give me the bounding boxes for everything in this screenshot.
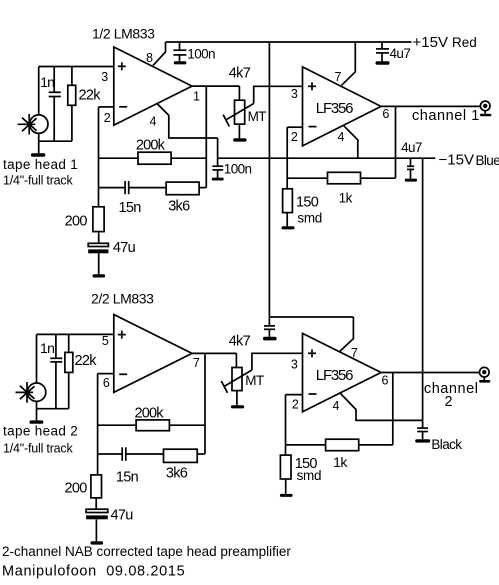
op-amp U2 LF356 (ch1) [303,67,382,146]
svg-text:−15V: −15V [439,152,474,169]
capacitor 1n (ch2) [50,334,62,408]
svg-text:4u7: 4u7 [390,46,411,61]
wire stage2 supply horizontal [269,316,353,318]
svg-text:3: 3 [101,70,108,84]
pin 7 lead to +15V [339,317,353,352]
trimmer 4k7 MT (ch1) [223,86,254,138]
svg-text:tape head 1: tape head 1 [3,157,78,172]
svg-text:2: 2 [444,394,452,410]
svg-text:1/4"-full track: 1/4"-full track [3,174,73,188]
pin 4 lead to -15V [158,104,218,138]
op-amp U1a LM833 [114,47,192,125]
ground (47u ch1) [93,274,106,277]
op-amp U3 LF356 (ch2) [303,333,382,411]
resistor 200k (ch1) [99,152,207,164]
wire tape head 1 bottom [38,133,40,153]
capacitor 47u (ch2, electrolytic) [86,509,108,541]
trimmer 4k7 MT (ch2) [221,353,252,405]
svg-text:6: 6 [382,373,389,387]
capacitor 15n (ch2) [98,447,164,461]
resistor 200 (ch2) [91,475,102,509]
svg-text:4: 4 [150,114,157,128]
svg-text:1k: 1k [339,190,353,205]
pin 4 lead to -15V [340,393,423,420]
svg-text:47u: 47u [111,508,134,524]
svg-text:7: 7 [351,346,358,360]
capacitor decoupling (mid, unlabeled) [264,317,275,337]
wire input vertical [36,334,38,383]
capacitor 1n (ch1) [49,67,61,142]
resistor 200k (ch2) [98,420,205,431]
svg-text:15n: 15n [119,200,142,216]
svg-text:200k: 200k [136,138,166,154]
svg-text:2/2 LM833: 2/2 LM833 [91,291,154,307]
resistor 3k6 (ch1) [166,182,206,195]
op-amp U1b LM833 [114,315,192,393]
resistor 22k (ch1) [68,67,76,142]
svg-text:MT: MT [248,109,267,124]
ground (Black) [415,439,430,442]
svg-text:200: 200 [65,214,88,230]
resistor 1k (ch1) [287,172,395,184]
wire supply vertical to stage 2 [268,42,270,317]
svg-text:1/4"-full track: 1/4"-full track [3,441,73,455]
wire black net vertical [422,158,424,428]
ground (4u7 -15V) [405,179,417,182]
svg-text:1: 1 [193,90,200,104]
svg-text:200: 200 [65,481,88,497]
svg-text:1n: 1n [40,74,54,90]
resistor 150 smd (ch2) [280,455,291,494]
svg-text:smd: smd [297,211,322,226]
svg-text:tape head 2: tape head 2 [3,424,78,439]
wire -15V rail [218,157,436,159]
svg-text:LF356: LF356 [316,367,353,384]
svg-text:channel 1: channel 1 [412,108,480,124]
ground (100n -15V) [212,178,224,181]
wire pin 6 notch [98,373,114,375]
svg-text:15n: 15n [116,470,139,486]
wire tape head 2 bottom [36,401,38,420]
tape head 1 symbol [18,114,48,135]
wire pin 2 vertical [285,395,287,456]
svg-text:100n: 100n [187,46,215,61]
svg-text:7: 7 [335,70,342,84]
svg-text:5: 5 [102,334,109,348]
svg-text:2: 2 [104,111,111,125]
wire wiper to pin 3 [254,86,303,103]
wire pin 6 feedback vertical [392,373,394,445]
connector channel 1 [480,101,491,116]
svg-text:LF356: LF356 [316,100,353,117]
svg-text:4k7: 4k7 [229,66,251,82]
svg-text:4k7: 4k7 [229,333,251,349]
svg-text:Black: Black [431,437,462,452]
ground (100n top) [174,61,187,64]
wire pin 7 output [192,352,236,354]
capacitor 47u (ch1, electrolytic) [88,243,108,274]
svg-text:4u7: 4u7 [401,140,422,155]
svg-text:Manipulofoon 09.08.2015: Manipulofoon 09.08.2015 [2,564,185,580]
ground (150 ch2) [280,494,293,497]
svg-text:6: 6 [103,376,110,390]
wire pin 6 vertical (feedback node A2) [97,374,99,475]
pin 7 lead to +15V [342,42,356,85]
wire pin 6 output channel 1 [381,105,481,107]
wire pin 2 vertical (feedback node A1) [98,107,100,207]
svg-text:22k: 22k [79,87,102,103]
svg-text:3: 3 [291,358,298,372]
svg-text:4: 4 [333,399,340,413]
resistor 150 smd (ch1) [283,189,293,227]
wire pin 2 notch [99,106,114,108]
wire input bottom rail [39,140,72,142]
wire pin 2 notch (LF356-2) [286,394,303,396]
svg-text:Red: Red [452,35,477,50]
svg-text:1k: 1k [333,454,348,470]
ground (trimmer ch2) [231,405,244,408]
ground (tape head 1) [31,153,45,156]
svg-text:3k6: 3k6 [168,199,190,215]
wire pin 2 notch (LF356-1) [287,126,302,128]
capacitor 4u7 (on -15V rail) [407,158,414,178]
pin 4 lead to -15V [344,126,358,159]
ground (4u7 +15V) [376,61,390,64]
capacitor 100n (on +15V rail) [173,42,186,61]
svg-text:8: 8 [146,51,153,65]
svg-text:2: 2 [292,397,299,411]
svg-text:1n: 1n [40,340,54,356]
svg-text:3k6: 3k6 [166,466,188,482]
wire pin 2 vertical [286,127,288,189]
svg-text:2-channel NAB corrected tape h: 2-channel NAB corrected tape head preamp… [2,544,291,559]
svg-text:150: 150 [296,194,319,210]
pin 8 lead [153,42,166,65]
wire wiper to pin 3 [252,353,303,370]
svg-text:1/2 LM833: 1/2 LM833 [92,26,155,42]
capacitor 100n (on -15V rail) [212,166,223,177]
capacitor Black (output) [417,428,428,439]
svg-text:47u: 47u [113,240,136,256]
svg-text:7: 7 [193,356,200,370]
svg-text:200k: 200k [135,406,165,422]
svg-text:22k: 22k [75,353,98,369]
ground (trimmer ch1) [233,138,246,141]
svg-text:+15V: +15V [413,34,448,51]
svg-text:6: 6 [382,107,389,121]
svg-text:4: 4 [338,130,345,144]
wire pin4 junction vertical [217,138,219,166]
svg-text:Blue: Blue [476,153,499,168]
wire pin 6 output channel 2 [381,372,480,374]
tape head 2 symbol [16,382,46,403]
ground (47u ch2) [91,541,104,544]
wire pin 1 feedback vertical [205,86,207,188]
wire pin 3 input [39,66,114,68]
resistor 22k (ch2) [65,334,73,408]
wire pin 1 output [192,85,239,87]
svg-text:3: 3 [291,87,298,101]
wire pin 6 feedback vertical [395,106,397,178]
wire input vertical [38,67,40,115]
svg-text:100n: 100n [224,161,252,176]
resistor 200 (ch1) [93,207,104,244]
wire input bottom rail [37,408,69,410]
svg-text:smd: smd [297,468,322,483]
ground (mid cap) [263,337,277,341]
svg-text:MT: MT [245,373,264,388]
ground (150 ch1) [282,226,295,229]
wire +15V rail [166,41,412,43]
resistor 3k6 (ch2) [164,449,206,462]
wire pin 5 input [37,333,114,335]
wire pin 7 feedback vertical [204,353,206,454]
resistor 1k (ch2) [286,439,393,451]
svg-text:2: 2 [291,130,298,144]
capacitor 4u7 (on +15V rail) [376,42,389,61]
capacitor 15n (ch1) [99,181,167,194]
connector channel 2 [479,367,490,382]
ground (tape head 2) [30,420,44,423]
